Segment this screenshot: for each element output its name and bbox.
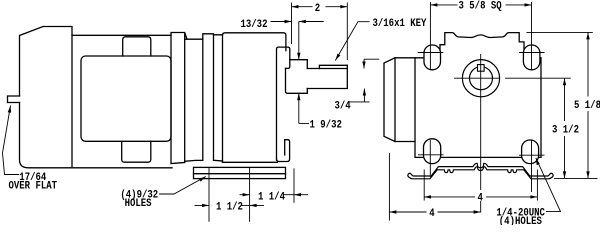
shaft vertical centerline [480,54,482,213]
leader 1/4-20UNC [536,158,561,212]
bearing housing block [223,33,286,163]
svg-text:13/32: 13/32 [241,18,268,31]
arrow 1 1/2 left outside [202,204,209,207]
svg-text:5 1/8: 5 1/8 [574,99,600,112]
top lug on motor frame [123,37,151,56]
valley 2 [214,35,223,161]
PART LINES [8,27,348,179]
dim 2: line [292,6,348,8]
arrow 3 5/8 right [525,3,532,6]
shaft bore inner circle [470,67,493,90]
arrow 1 1/2 right outside [250,204,257,207]
arrow 3 1/2 down [563,171,566,178]
pump foot [277,140,290,162]
shaft [307,65,347,88]
top-left ear boss [424,45,441,70]
RIGHT VIEW [384,33,541,158]
leader (4)9/32 holes [159,177,206,195]
svg-text:1 9/32: 1 9/32 [310,119,342,132]
dim 4 inner line [424,196,537,198]
svg-text:4: 4 [478,193,483,205]
svg-text:HOLES: HOLES [125,198,152,210]
mounting base plate [194,167,286,178]
shaft bore outer circle [462,60,499,97]
svg-text:3/4: 3/4 [335,100,351,113]
valley between flanges [185,39,203,161]
arrow dim2 left [292,5,299,8]
ext lines dim 4 inner [424,170,537,201]
svg-text:1 1/2: 1 1/2 [216,201,243,214]
svg-text:1 1/4: 1 1/4 [258,191,285,204]
svg-text:3 5/8 SQ: 3 5/8 SQ [459,0,502,13]
motor shaft stub tab (17/64 over flat) [8,96,20,103]
key leader [335,22,369,61]
arrow 1/4-20UNC leader [536,158,540,166]
bearing flange plate [277,47,290,160]
arrow 5 1/8 up [586,32,589,39]
ext line dim 4 outer [388,153,390,221]
dim 1 1/4 line [240,194,309,196]
ears (stadium bosses) white over face corners [424,45,540,164]
arrow 1 9/32 down [297,53,300,60]
top-right ear boss [523,45,540,70]
leader 17/64 [3,106,20,175]
centerline top-right hole [519,2,545,70]
arrow key leader [335,54,340,61]
ext line bracket bottom right [554,177,598,179]
arrow 1 1/4 right outside [294,193,301,196]
svg-text:2: 2 [315,3,320,15]
keyway notch [478,65,485,72]
base plate mid line [194,173,286,175]
centerline top-left hole [418,2,444,70]
mounting bracket (stamped base, end view) [408,163,553,179]
arrow 3/4 up [363,89,366,96]
dim 13/32 lines [271,21,324,23]
arrow 3 1/2 up [563,78,566,85]
motor frame face plate (inner rounded rect) [81,56,171,141]
bottom-left ear boss [424,139,441,164]
arrow 3 5/8 left [430,3,437,6]
dim 3/4 arrow lines [349,59,379,102]
dim 1 1/2 line [195,204,265,206]
arrow 4 inner left [424,195,431,198]
bolt hole bottom-left [426,150,435,159]
centerline bottom-left hole [418,140,444,177]
bottom-right ear boss [522,140,539,164]
svg-text:3 1/2: 3 1/2 [552,124,579,137]
arrow 4 inner right [530,195,537,198]
bolt hole top-left [426,48,436,58]
arrow 13/32 right-pointing [285,20,292,23]
bolt hole bottom-right [527,150,537,160]
arrow 1 9/32 up [297,93,300,100]
svg-text:OVER FLAT: OVER FLAT [9,181,58,193]
motor frame top edge [72,34,171,36]
svg-text:3/16x1 KEY: 3/16x1 KEY [373,17,428,30]
motor body outline [20,27,173,168]
arrow dim2 right [340,5,347,8]
dim 3 5/8 SQ line [430,4,531,6]
arrow (4)9/32 leader [199,177,206,182]
arrow 17/64 leader [8,106,11,113]
arrow 13/32 left-pointing [299,20,306,23]
ext line casting top right [526,31,592,33]
block bottom edge [223,161,278,163]
shaft horizontal centerline [454,77,571,79]
bolt hole top-right [527,48,537,58]
side panel (depth) [384,58,415,142]
dim 1 9/32 arrow lines [299,22,309,124]
dim 2: extension lines [292,3,348,61]
casting face outline [415,33,541,158]
CENTER LINES [418,2,571,213]
svg-text:4: 4 [429,208,434,220]
arrow 4 outer right [474,210,481,213]
svg-text:(4)HOLES: (4)HOLES [499,215,542,225]
ring flange 2 [203,34,214,161]
arrow 4 outer left [389,210,396,213]
dim 3 1/2 line [564,78,566,178]
bottom lug on motor frame [122,141,151,162]
arrow 5 1/8 down [586,171,589,178]
ext lines bottom-left dims [209,167,294,222]
centerline bottom-right hole [519,140,545,192]
bearing hub [286,60,308,94]
dim 4 outer line [389,211,480,213]
ring flange 1 [171,33,187,164]
key 3/16x1 [319,65,347,68]
arrow 3/4 down [362,62,365,69]
dim 5 1/8 line [587,32,589,178]
arrow 1 1/4 left outside [243,193,250,196]
